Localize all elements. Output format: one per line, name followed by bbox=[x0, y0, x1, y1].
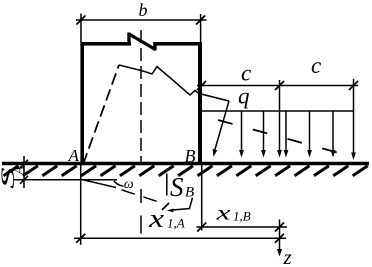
tick c middle bbox=[275, 81, 284, 90]
load arrow 2 bbox=[263, 111, 265, 151]
foundation right wall bbox=[198, 42, 202, 165]
load arrow 5 bbox=[332, 111, 334, 151]
centerline dash below ground 2 bbox=[140, 216, 142, 234]
label x1A bbox=[148, 204, 165, 233]
svg-text:1,B: 1,B bbox=[233, 209, 251, 224]
load arrow 1 bbox=[241, 111, 243, 151]
load right edge arrow (extends to c dimension) bbox=[353, 79, 355, 153]
svg-text:b: b bbox=[139, 0, 148, 20]
S_A tick bottom bbox=[20, 176, 28, 184]
tilted base line solid part with angle omega bbox=[80, 179, 116, 187]
tick x1A right bbox=[275, 234, 284, 243]
tick x1A left bbox=[76, 234, 85, 243]
svg-text:A: A bbox=[68, 146, 80, 165]
dashed diagonal under load bbox=[218, 120, 352, 157]
distributed load q top line bbox=[202, 110, 354, 112]
centerline dash below ground 1 bbox=[140, 189, 142, 203]
break symbol left nub bbox=[127, 33, 130, 46]
S_A tick top bbox=[20, 160, 28, 168]
foundation top edge right part bbox=[154, 42, 203, 46]
tick at end of tilted base bbox=[162, 203, 169, 210]
break symbol right nub bbox=[153, 42, 156, 51]
load arrow 3 bbox=[285, 111, 287, 151]
extension line left of b bbox=[80, 14, 82, 43]
svg-text:x: x bbox=[148, 204, 165, 233]
extension line right of b bbox=[200, 14, 202, 42]
z axis arrowhead bbox=[277, 249, 282, 257]
svg-text:A: A bbox=[12, 165, 28, 176]
svg-text:z: z bbox=[283, 245, 292, 267]
extension line below B bbox=[201, 165, 203, 231]
z axis line bbox=[279, 220, 281, 251]
load arrow 4 bbox=[309, 111, 311, 151]
label x1B bbox=[215, 201, 230, 225]
S_B leader bracket bbox=[170, 198, 193, 211]
svg-text:x: x bbox=[215, 201, 230, 225]
svg-text:c: c bbox=[241, 61, 251, 86]
dimension line c c bbox=[197, 85, 358, 87]
tick c left bbox=[197, 81, 206, 90]
centerline dashed (axis of foundation) bbox=[140, 30, 142, 163]
svg-text:1,A: 1,A bbox=[167, 216, 185, 231]
tick c right bbox=[349, 81, 358, 90]
foundation top edge left part bbox=[80, 42, 131, 46]
svg-text:S: S bbox=[170, 172, 184, 202]
tilted right wall bbox=[214, 101, 229, 152]
arrowhead at bottom of tilted right wall bbox=[213, 149, 218, 157]
svg-text:B: B bbox=[185, 146, 196, 166]
foundation left wall bbox=[80, 42, 84, 165]
tick right of b bbox=[196, 16, 205, 25]
dimension line x1B bbox=[197, 226, 288, 228]
tick x1B left bbox=[197, 223, 206, 232]
ground surface line bbox=[2, 162, 369, 166]
ground hatching bbox=[4, 166, 368, 176]
break symbol diagonal bbox=[129, 34, 156, 50]
settled ground line at depth S_A bbox=[13, 179, 117, 181]
tilted base line dashed part bbox=[122, 190, 159, 202]
arrowhead of S_B leader bbox=[167, 209, 174, 213]
svg-text:q: q bbox=[238, 84, 250, 109]
tick left of b bbox=[77, 16, 86, 25]
svg-text:c: c bbox=[311, 53, 321, 78]
S_B dimension vertical bbox=[166, 174, 168, 196]
svg-text:ω: ω bbox=[124, 177, 134, 192]
dimension line b (top) bbox=[76, 19, 207, 21]
tilted left wall (dashed) bbox=[83, 65, 119, 165]
omega angle arc bbox=[114, 181, 124, 187]
center axis arrow (load middle, extends to c dimension) bbox=[279, 80, 281, 151]
label S_A (rotated) bbox=[0, 167, 19, 189]
S_A dimension vertical bbox=[23, 156, 25, 188]
tick x1B right bbox=[275, 223, 284, 232]
tilted top edge (jagged with break) bbox=[119, 65, 229, 101]
extension line below A bbox=[80, 165, 82, 245]
dimension line x1A bbox=[74, 237, 286, 239]
